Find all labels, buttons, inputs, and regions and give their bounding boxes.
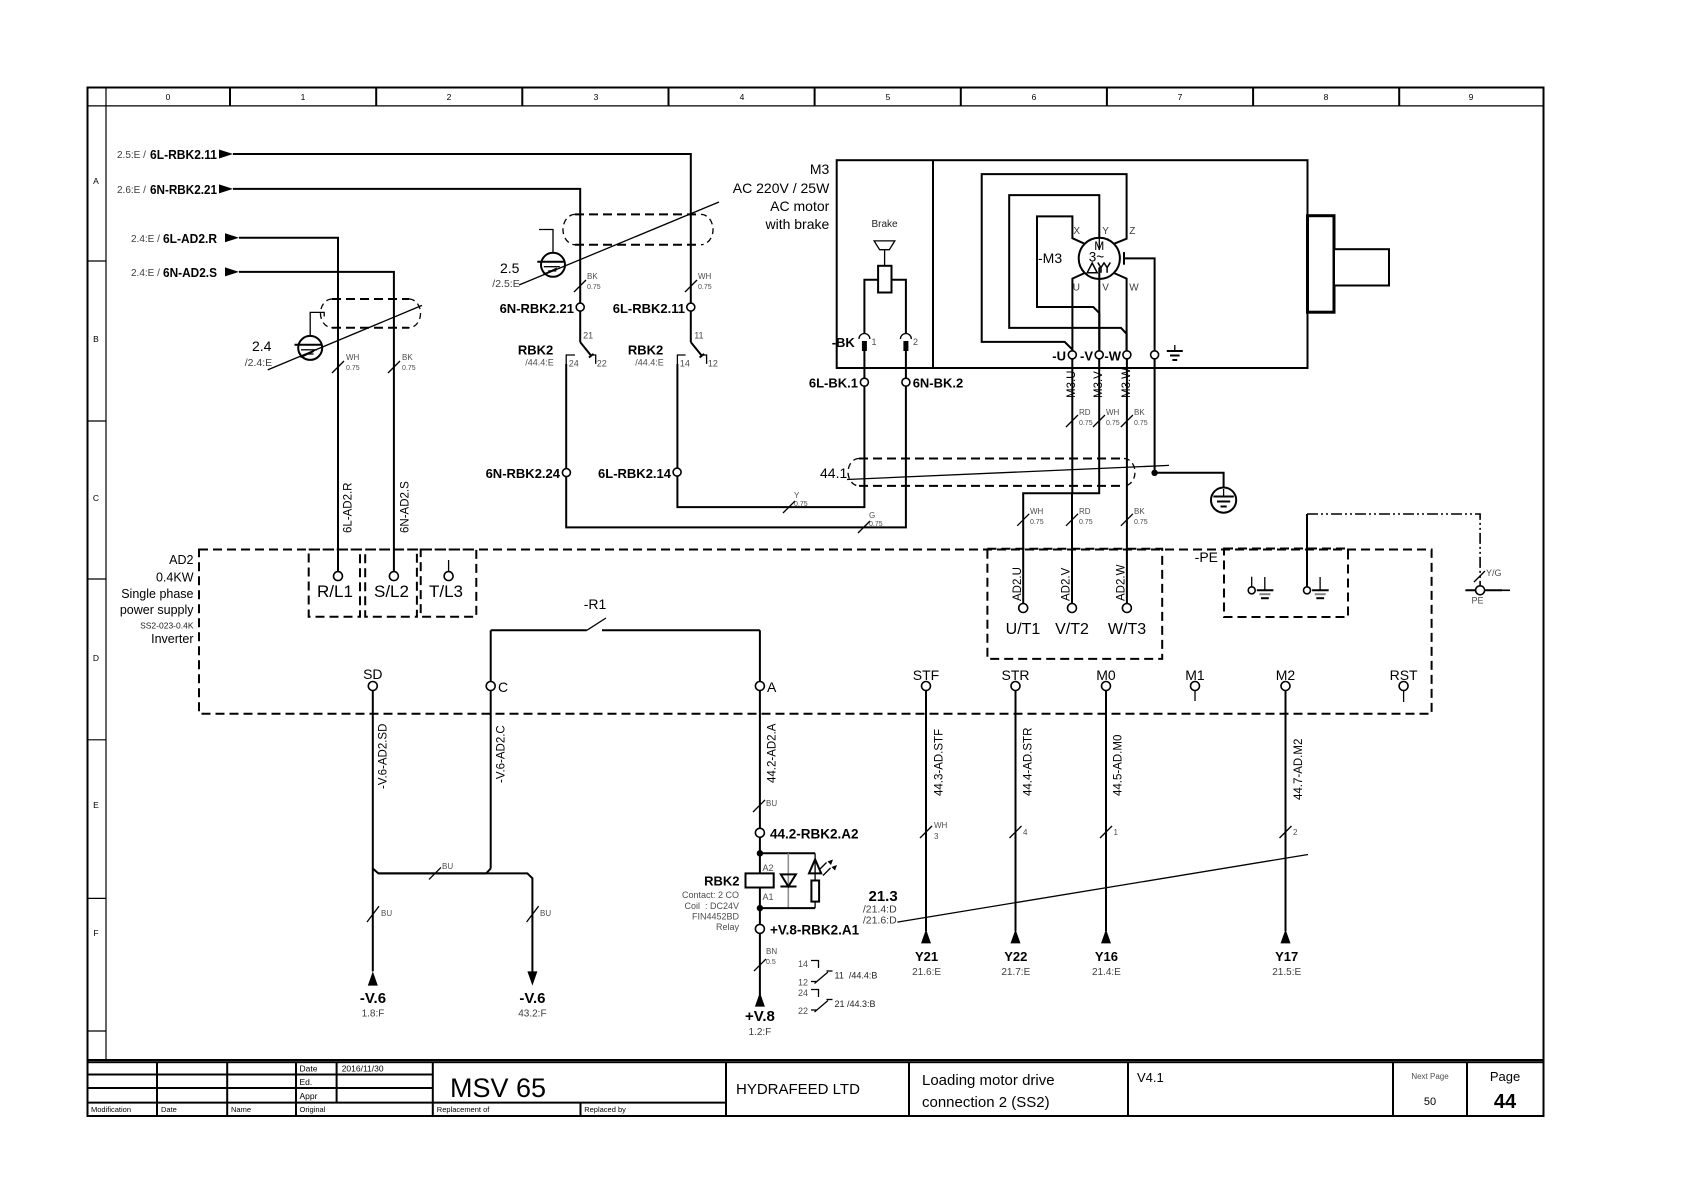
svg-text:3~: 3~ [1089,250,1105,265]
svg-text:7: 7 [1178,92,1183,102]
terminal STR [1002,667,1030,691]
terminal box S/L2 [365,550,417,617]
terminal -W [1104,349,1131,364]
svg-text:44.2-AD2.A: 44.2-AD2.A [767,723,779,783]
svg-text:0.75: 0.75 [1134,519,1148,526]
terminal SD [363,666,382,691]
svg-text:Loading motor drive: Loading motor drive [922,1072,1055,1089]
svg-text:BU: BU [381,909,392,918]
terminal box U/T1 V/T2 W/T3 [987,549,1162,659]
svg-text:-V.6-AD2.C: -V.6-AD2.C [496,725,508,783]
svg-text:-U: -U [1052,349,1066,364]
svg-text:11: 11 [694,330,703,340]
wire 6N-RBK2.21 [233,189,580,303]
junction dot [1151,470,1157,476]
svg-text:6N-BK.2: 6N-BK.2 [913,376,964,391]
svg-text:STF: STF [913,667,939,683]
switch -R1 [491,596,760,630]
svg-text:SD: SD [363,666,382,682]
svg-text:-V: -V [1080,349,1093,364]
svg-text:A2: A2 [763,863,774,873]
svg-text:0.4KW: 0.4KW [156,571,194,585]
svg-text:M0: M0 [1096,667,1116,683]
wire mark WH 3 [920,821,948,841]
svg-text:Date: Date [161,1105,177,1114]
svg-text:Coil : DC24V: Coil : DC24V [684,901,739,911]
svg-text:WH: WH [1030,507,1044,516]
contact cross-reference 21/22/24 [798,988,876,1016]
wire mark BU (horizontal link) [429,862,453,879]
svg-text:-PE: -PE [1195,549,1218,565]
svg-text:SS2-023-0.4K: SS2-023-0.4K [140,621,194,631]
svg-text:B: B [93,334,99,344]
svg-text:AC 220V / 25W: AC 220V / 25W [733,180,830,196]
svg-text:/44.4:E: /44.4:E [635,358,664,368]
terminal S/L2 [389,572,398,581]
svg-text:V: V [1102,283,1109,294]
svg-text:44.1: 44.1 [820,465,847,481]
terminal M2 [1276,667,1296,691]
svg-text:0.5: 0.5 [766,959,776,966]
svg-text:A1: A1 [763,892,774,902]
svg-text:0.75: 0.75 [794,501,808,508]
svg-text:power supply: power supply [120,603,194,617]
svg-text:-V.6: -V.6 [360,990,386,1007]
wire mark RD 0.75 upper [1066,408,1093,427]
svg-text:21.6:E: 21.6:E [912,967,941,978]
svg-text:Brake: Brake [871,219,898,230]
svg-text:PE: PE [1472,596,1484,606]
wire mark WH 0.75 on 6L-RBK2.11 wire [685,272,712,292]
earth symbol (protective earth circle) [1211,488,1236,513]
svg-text:with brake: with brake [764,216,829,232]
svg-text:Contact: 2 CO: Contact: 2 CO [682,890,739,900]
wire mark RD 0.75 lower [1066,507,1093,526]
svg-text:Ed.: Ed. [300,1077,313,1087]
wire mark WH 0.75 lower [1017,507,1044,526]
svg-text:RD: RD [1079,507,1091,516]
svg-text:X: X [1073,226,1080,237]
svg-text:RD: RD [1079,408,1091,417]
svg-text:M3: M3 [810,161,830,177]
wire relay bottom rail [757,888,815,925]
svg-text:RBK2: RBK2 [628,342,663,357]
svg-text:2: 2 [1293,828,1298,837]
svg-text:0.75: 0.75 [1106,420,1120,427]
node -V.6 43.2:F [518,990,546,1020]
terminal C [486,679,508,695]
svg-text:AD2.V: AD2.V [1061,567,1073,601]
svg-text:-BK: -BK [832,335,856,350]
node +V.8 1.2:F [745,1008,775,1038]
terminal box T/L3 [421,550,477,617]
svg-text:14: 14 [680,359,690,369]
wire M3.V [1072,359,1099,604]
svg-text:/2.4:E: /2.4:E [245,357,272,369]
svg-text:RBK2: RBK2 [704,874,739,889]
svg-text:Y: Y [1102,226,1109,237]
wire 6L-RBK2.11 [233,154,691,303]
cable 2.4 with shield [245,299,422,370]
motor M3 winding path Z-U (outer) [982,174,1127,355]
terminal 6N-BK.2 [902,376,963,391]
node Y16 [1092,949,1121,978]
svg-text:S/L2: S/L2 [374,582,409,601]
svg-text:6N-RBK2.24: 6N-RBK2.24 [486,466,561,481]
terminal PE [1465,586,1510,606]
svg-text:6L-RBK2.14: 6L-RBK2.14 [598,466,672,481]
svg-text:6: 6 [1032,92,1037,102]
svg-text:+V.8: +V.8 [745,1008,775,1025]
svg-text:/2.5:E: /2.5:E [492,278,519,290]
svg-text:1: 1 [1114,828,1119,837]
svg-text:1: 1 [301,92,306,102]
svg-text:U: U [1073,283,1080,294]
svg-text:0.75: 0.75 [869,521,883,528]
terminal A [755,679,777,695]
svg-text:6L-AD2.R: 6L-AD2.R [343,483,355,534]
svg-text:6N-AD2.S: 6N-AD2.S [163,265,217,280]
svg-text:2.6:E /: 2.6:E / [117,185,146,196]
svg-text:W/T3: W/T3 [1108,621,1146,638]
svg-text:Replaced by: Replaced by [584,1105,626,1114]
svg-text:21.3: 21.3 [868,888,897,905]
terminal V/T2 [1055,604,1089,639]
svg-text:Appr: Appr [300,1091,318,1101]
svg-text:Inverter: Inverter [151,632,193,646]
wire 6N-AD2.S [239,272,394,572]
terminal 6N-RBK2.24 [486,466,571,481]
svg-text:Relay: Relay [716,922,740,932]
svg-text:6N-RBK2.21: 6N-RBK2.21 [150,182,217,197]
svg-text:Single phase: Single phase [121,587,193,601]
wire U to -U [1072,273,1084,355]
svg-text:HYDRAFEED LTD: HYDRAFEED LTD [736,1081,860,1098]
svg-text:Next Page: Next Page [1411,1072,1449,1081]
svg-text:M1: M1 [1185,667,1205,683]
wire A to relay A2 [759,691,761,829]
svg-text:AD2: AD2 [169,553,193,567]
svg-text:C: C [498,679,508,695]
svg-text:5: 5 [886,92,891,102]
svg-text:2.4:E /: 2.4:E / [131,234,160,245]
node 2.5:E / 6L-RBK2.11 source [117,147,233,162]
wire C up to R1 [490,630,492,681]
wire mark 4 [1010,826,1029,838]
svg-text:44.2-RBK2.A2: 44.2-RBK2.A2 [770,827,859,842]
wire M2 to Y17 [1281,691,1291,944]
wire mark BK 0.75 on 6N-AD2.S [388,353,416,373]
svg-text:BK: BK [1134,408,1145,417]
svg-text:F: F [93,928,98,938]
svg-text:44.3-AD.STF: 44.3-AD.STF [934,729,946,796]
svg-text:6N-RBK2.21: 6N-RBK2.21 [500,301,574,316]
contact RBK2 21/22/24 [518,311,607,369]
terminal -U [1052,349,1076,364]
brake contact line from motor [1124,252,1155,351]
svg-text:Date: Date [300,1064,318,1074]
svg-text:G: G [869,511,875,520]
svg-text:M3.V: M3.V [1093,371,1105,398]
svg-text:AD2.W: AD2.W [1116,564,1128,601]
svg-text:2: 2 [913,337,918,347]
svg-text:43.2:F: 43.2:F [518,1009,546,1020]
node Y17 [1272,949,1301,978]
svg-text:44.4-AD.STR: 44.4-AD.STR [1023,728,1035,796]
terminal R/L1 [334,572,343,581]
svg-text:Y16: Y16 [1095,949,1118,964]
wire STR to Y22 [1011,691,1021,944]
svg-text:0.75: 0.75 [698,284,712,291]
wire PE (dash-dot) [1307,514,1480,585]
node 2.4:E / 6N-AD2.S source [131,265,239,280]
wire relay top rail [757,837,815,873]
svg-text:44.7-AD.M2: 44.7-AD.M2 [1293,739,1305,800]
wire mark BK 0.75 upper [1121,408,1148,427]
terminal RST [1390,667,1418,702]
svg-text:-R1: -R1 [584,596,607,612]
contact RBK2 11/12/14 [628,311,718,369]
svg-text:Page: Page [1490,1069,1520,1084]
svg-text:6L-RBK2.11: 6L-RBK2.11 [150,147,217,162]
svg-text:6N-AD2.S: 6N-AD2.S [400,481,412,533]
terminal 6N-RBK2.21 [500,301,585,316]
svg-text:6L-RBK2.11: 6L-RBK2.11 [613,301,685,316]
motor M3 winding path Y-W (middle) [1009,195,1126,355]
terminal 6L-BK.1 [809,376,869,391]
svg-text:0: 0 [166,92,171,102]
node Y21 [912,949,941,978]
svg-text:R/L1: R/L1 [317,582,353,601]
svg-text:14: 14 [798,959,808,969]
svg-text:Modification: Modification [91,1105,131,1114]
svg-text:6L-BK.1: 6L-BK.1 [809,376,858,391]
wire C to -V.6 [378,691,537,986]
wire mark BK 0.75 lower [1121,507,1148,526]
svg-text:/21.6:D: /21.6:D [863,915,897,927]
inverter AD2 box [120,550,1432,714]
terminal 6L-RBK2.14 [598,466,681,481]
svg-text:22: 22 [597,359,607,369]
wire to +V.8 [755,933,765,1006]
svg-text:M3.W: M3.W [1121,368,1133,398]
svg-text:6L-AD2.R: 6L-AD2.R [163,231,218,246]
svg-text:0.75: 0.75 [402,365,416,372]
page frame [88,88,1544,1117]
node 2.4:E / 6L-AD2.R source [131,231,239,246]
motor M3 winding path X-V (inner) [1037,216,1099,354]
svg-text:12: 12 [798,978,808,988]
svg-text:4: 4 [740,92,745,102]
svg-text:3: 3 [594,92,599,102]
wire RBK2 pin24 to 6N-BK.2 [566,364,906,527]
svg-text:-W: -W [1104,349,1121,364]
cable 44.1 [820,459,1169,486]
terminal T/L3 stub [444,560,453,581]
svg-text:50: 50 [1424,1096,1436,1108]
svg-text:-M3: -M3 [1038,250,1062,266]
terminal M0 [1096,667,1116,691]
svg-text:2.5:E /: 2.5:E / [117,150,146,161]
svg-text:3: 3 [934,832,939,841]
svg-text:T/L3: T/L3 [429,582,463,601]
terminal U/T1 [1006,604,1041,639]
terminal STF [913,667,939,691]
terminal W/T3 [1108,604,1146,639]
svg-text:BU: BU [766,799,777,808]
svg-text:M2: M2 [1276,667,1296,683]
svg-text:BK: BK [587,272,598,281]
wire M3.U [1023,359,1072,604]
wire V to -V [1098,268,1100,355]
svg-text:D: D [93,653,99,663]
svg-text:2.4: 2.4 [252,338,272,354]
wire SD to -V.6 [368,691,486,986]
svg-text:Z: Z [1129,226,1135,237]
svg-text:21.5:E: 21.5:E [1272,967,1301,978]
svg-text:0.75: 0.75 [1079,519,1093,526]
svg-text:-V.6: -V.6 [519,990,545,1007]
svg-text:AD2.U: AD2.U [1012,567,1024,601]
ground 1 in -PE box [1248,577,1273,599]
svg-text:Y21: Y21 [915,949,938,964]
svg-text:12: 12 [708,359,718,369]
svg-text:21.7:E: 21.7:E [1001,967,1030,978]
svg-text:Replacement of: Replacement of [437,1105,490,1114]
svg-text:0.75: 0.75 [587,284,601,291]
svg-text:1: 1 [872,337,877,347]
motor M3 symbol [1038,226,1139,294]
svg-text:FIN4452BD: FIN4452BD [692,911,740,921]
wire mark 1 [1100,826,1119,838]
wire mark BU (SD wire) [367,906,392,922]
relay LED with resistor [809,853,837,908]
relay coil RBK2 [682,863,774,932]
svg-text:Name: Name [231,1105,251,1114]
svg-text:connection 2 (SS2): connection 2 (SS2) [922,1094,1050,1111]
svg-text:WH: WH [698,272,712,281]
terminal 6L-RBK2.11 [613,301,695,316]
title block [88,1062,1544,1116]
svg-text:AC motor: AC motor [770,198,829,214]
terminal box R/L1 [309,550,360,617]
wire M3.W [1126,359,1128,604]
svg-text:BN: BN [766,947,777,956]
svg-text:9: 9 [1469,92,1474,102]
svg-text:24: 24 [569,359,579,369]
svg-text:V4.1: V4.1 [1137,1070,1164,1085]
terminal motor earth [1151,345,1183,360]
svg-text:4: 4 [1023,828,1028,837]
wire mark Y/G [1474,568,1502,582]
wire mark WH 0.75 on 6L-AD2.R [332,353,360,373]
svg-text:STR: STR [1002,667,1030,683]
svg-text:44.5-AD.M0: 44.5-AD.M0 [1113,735,1125,796]
node -V.6 1.8:F [360,990,386,1020]
svg-text:Y22: Y22 [1004,949,1027,964]
wire mark BN 0.5 [754,947,777,971]
svg-text:E: E [93,800,99,810]
svg-text:44: 44 [1494,1091,1517,1113]
motor M3 housing [733,160,1389,368]
svg-text:BU: BU [442,862,453,871]
wire RBK2 pin14 to 6L-BK.1 [677,364,864,507]
terminal 44.2-RBK2.A2 [755,827,858,842]
svg-text:0.75: 0.75 [346,365,360,372]
svg-text:2.5: 2.5 [500,260,520,276]
wire mark WH 0.75 upper [1093,408,1120,427]
svg-text:-V.6-AD2.SD: -V.6-AD2.SD [378,724,390,789]
svg-text:/44.4:E: /44.4:E [525,358,554,368]
svg-text:8: 8 [1324,92,1329,102]
svg-text:BK: BK [1134,507,1145,516]
wire M0 to Y16 [1101,691,1111,944]
svg-text:A: A [93,176,99,186]
svg-text:1.2:F: 1.2:F [749,1027,772,1038]
wire STF to Y21 [921,691,931,944]
svg-text:Y/G: Y/G [1486,568,1502,578]
svg-text:BU: BU [540,909,551,918]
node Y22 [1001,949,1030,978]
svg-text:MSV 65: MSV 65 [450,1073,546,1103]
wire W to -W [1114,273,1127,355]
cable 2.5 with shield [492,202,719,290]
box -PE [1195,549,1348,618]
svg-text:U/T1: U/T1 [1006,621,1041,638]
svg-text:21 /44.3:B: 21 /44.3:B [835,999,876,1009]
svg-text:RBK2: RBK2 [518,342,553,357]
contact cross-reference 11/12/14 [798,959,877,988]
wire mark 2 [1280,826,1299,838]
svg-text:21: 21 [583,330,593,340]
terminal +V.8-RBK2.A1 [755,923,859,938]
svg-text:BK: BK [402,353,413,362]
svg-text:RST: RST [1390,667,1418,683]
wire motor earth to PE ground [1155,359,1224,488]
brake BK [832,219,918,386]
svg-text:A: A [767,679,777,695]
svg-text:WH: WH [1106,408,1120,417]
wire mark BU (C wire) [527,906,552,922]
terminal M1 [1185,667,1205,701]
svg-text:24: 24 [798,988,808,998]
svg-text:WH: WH [346,353,360,362]
svg-text:22: 22 [798,1006,808,1016]
svg-text:0.75: 0.75 [1079,420,1093,427]
node 2.6:E / 6N-RBK2.21 source [117,182,233,197]
cable 21.3 [863,855,1308,927]
svg-text:C: C [93,493,99,503]
relay diode [780,853,796,908]
svg-text:V/T2: V/T2 [1055,621,1089,638]
svg-text:0.75: 0.75 [1134,420,1148,427]
svg-text:Original: Original [300,1105,326,1114]
svg-text:2016/11/30: 2016/11/30 [342,1064,384,1074]
wire mark BK 0.75 on 6N-RBK2.21 wire [574,272,601,292]
wire mark G 0.75 [858,511,883,533]
svg-text:Y17: Y17 [1275,949,1298,964]
wire mark Y 0.75 [783,491,808,513]
svg-text:1.8:F: 1.8:F [362,1009,385,1020]
wire A R1 to terminal [759,630,761,681]
wire 6L-AD2.R [239,238,338,572]
svg-text:Y: Y [794,491,800,500]
svg-text:2: 2 [447,92,452,102]
svg-text:21.4:E: 21.4:E [1092,967,1121,978]
svg-text:WH: WH [934,821,948,830]
terminal -V [1080,349,1103,364]
svg-text:W: W [1129,283,1139,294]
